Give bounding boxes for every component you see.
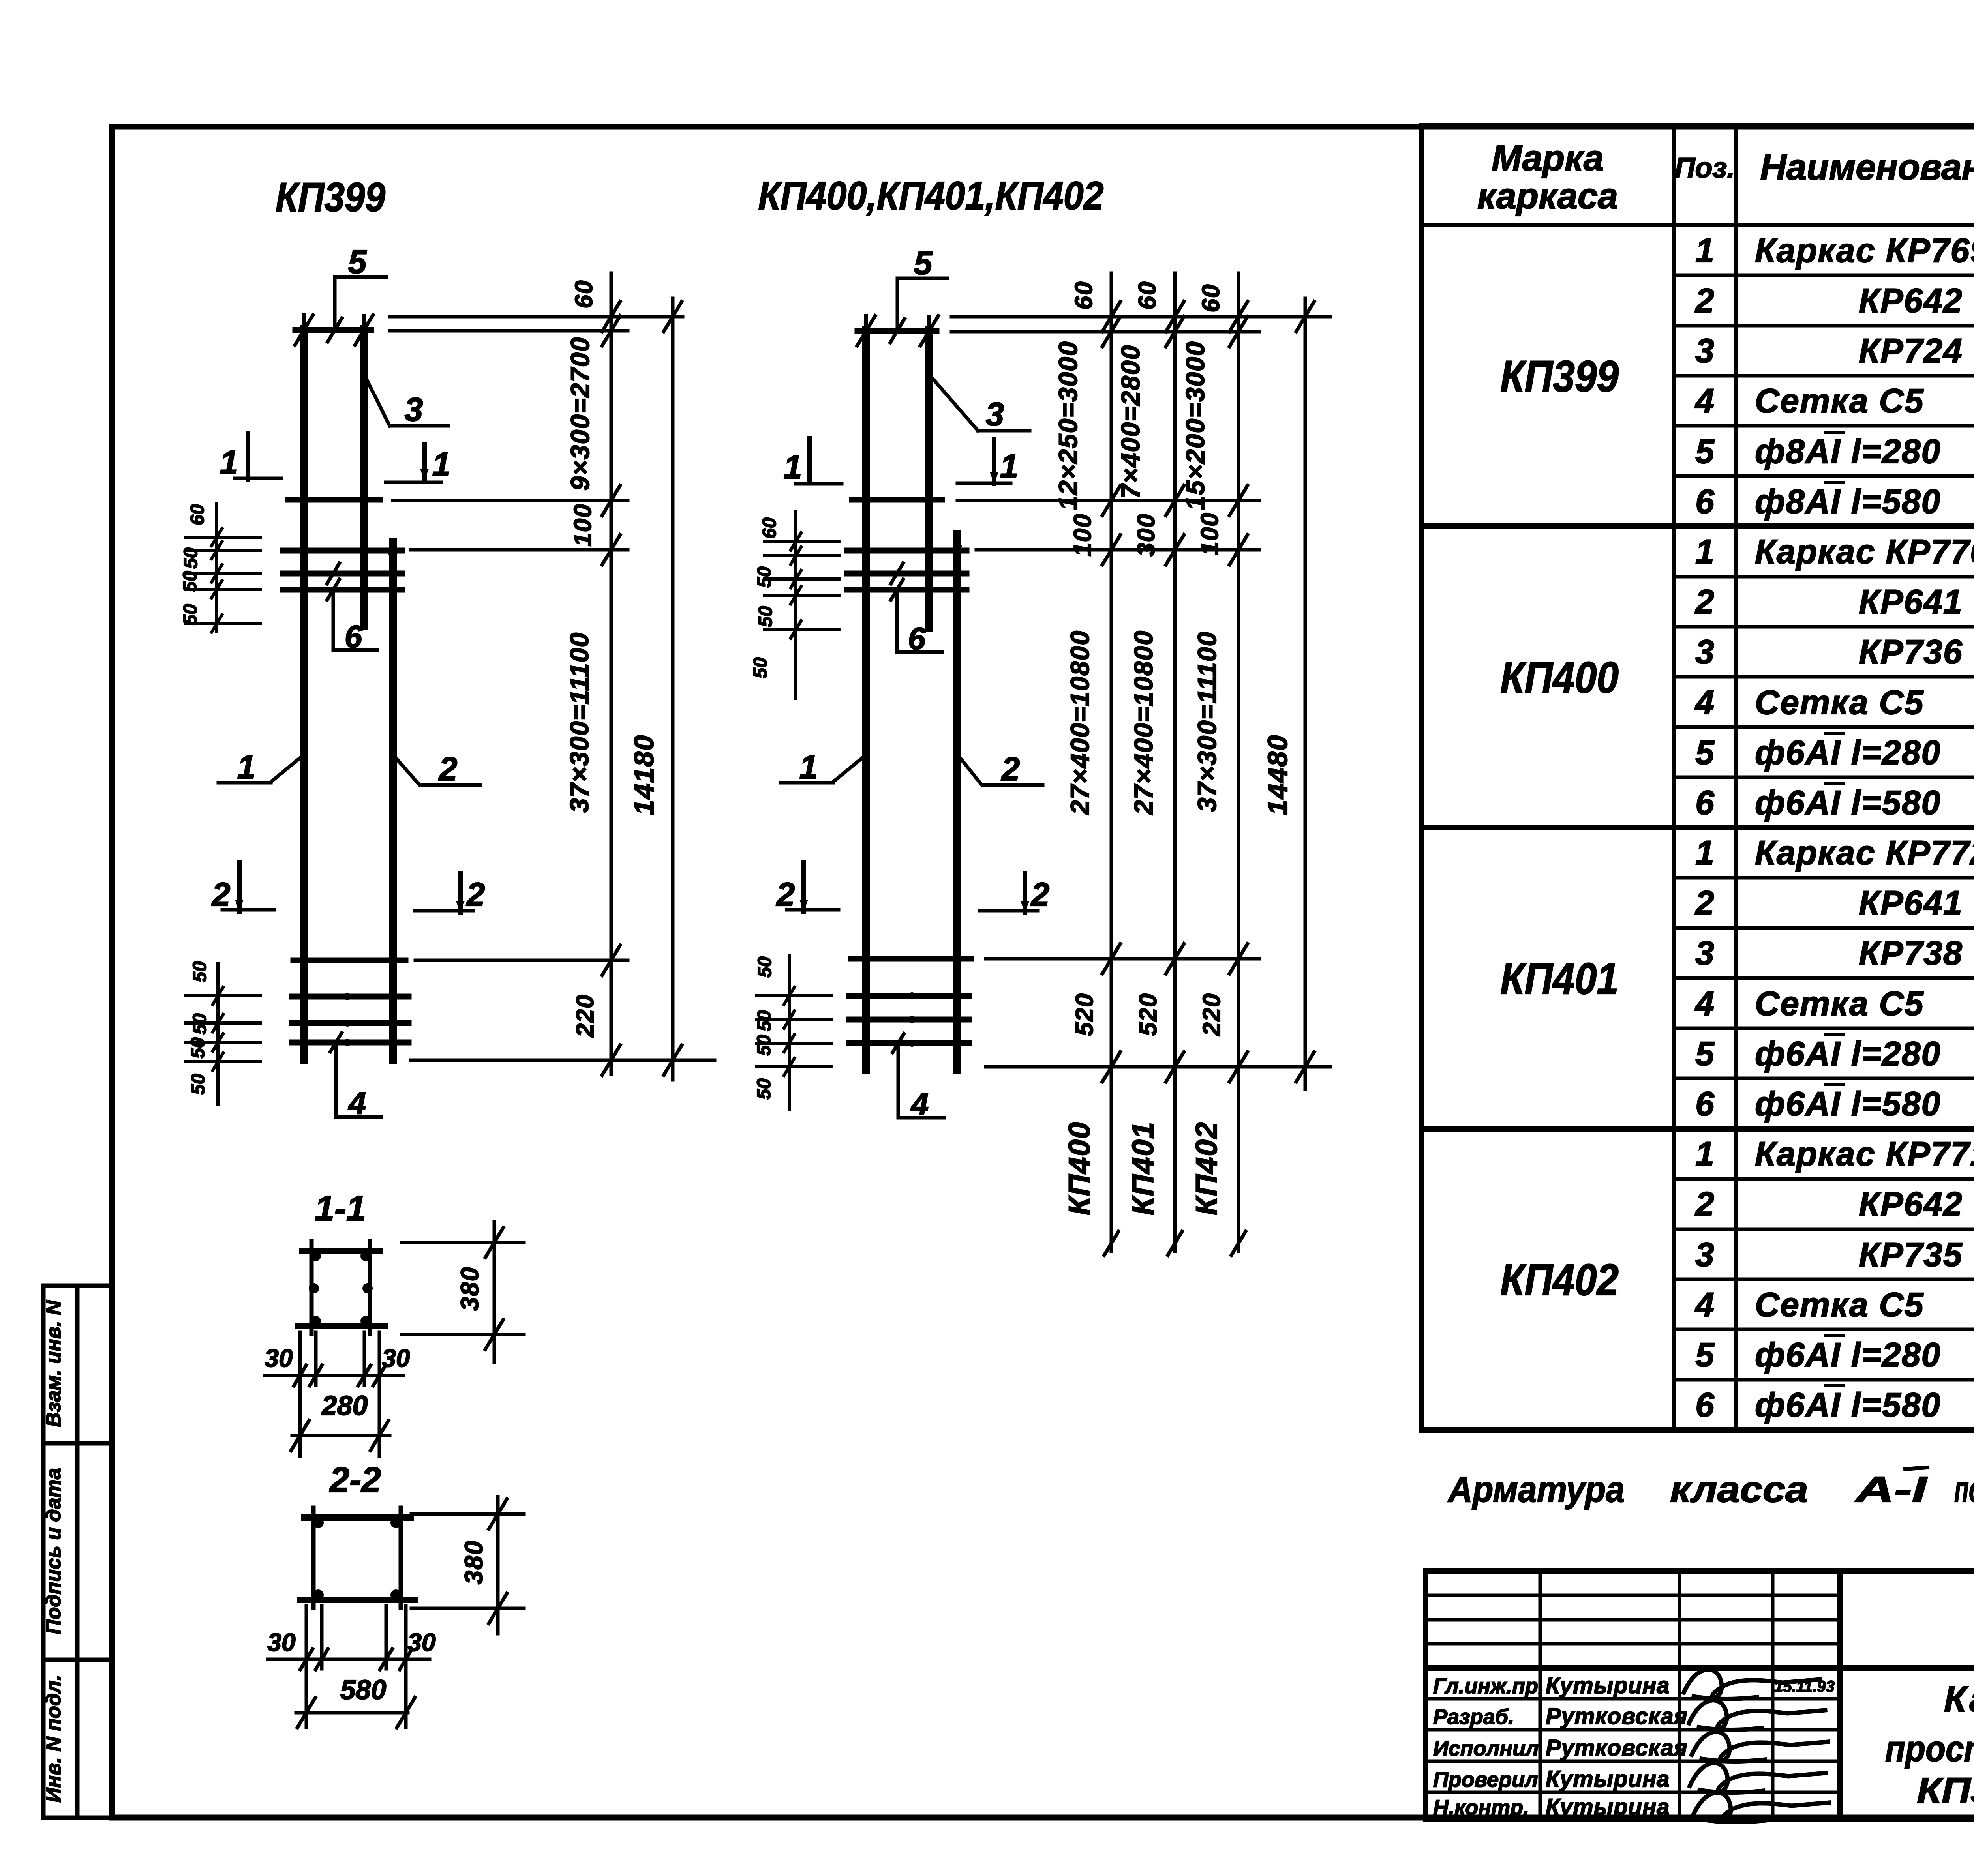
- svg-text:1: 1: [799, 748, 818, 785]
- svg-text:КР641: КР641: [1859, 583, 1963, 621]
- svg-text:220: 220: [572, 994, 599, 1037]
- svg-text:14180: 14180: [629, 735, 659, 815]
- splice cross line a: [283, 548, 402, 554]
- svg-text:5: 5: [1695, 1336, 1715, 1374]
- title block inner lines: [1426, 1571, 1974, 1819]
- dimension line 1 (КП399 partial dims): [610, 273, 613, 1074]
- svg-text:КП401: КП401: [1126, 1121, 1160, 1215]
- svg-text:КП399...КП402: КП399...КП402: [1917, 1771, 1974, 1811]
- svg-text:50: 50: [754, 1035, 775, 1056]
- bottom splice cross line a: [293, 958, 405, 963]
- d2 left mini dim stack (bottom): [788, 955, 791, 1109]
- left mini dim stack (bottom): [216, 964, 220, 1104]
- main bar item1 (left, full height): [300, 329, 308, 1060]
- svg-text:5: 5: [1695, 734, 1715, 772]
- svg-text:ф6АI l=580: ф6АI l=580: [1755, 784, 1941, 822]
- svg-text:ф6АI l=580: ф6АI l=580: [1755, 1386, 1941, 1424]
- svg-text:Сетка С5: Сетка С5: [1755, 382, 1924, 420]
- svg-text:КП402: КП402: [1190, 1121, 1223, 1215]
- svg-text:Каркас КР772: Каркас КР772: [1755, 834, 1974, 872]
- svg-text:100: 100: [569, 503, 597, 546]
- svg-text:15×200=3000: 15×200=3000: [1180, 341, 1210, 510]
- svg-text:Сетка С5: Сетка С5: [1755, 985, 1924, 1023]
- svg-text:2: 2: [1694, 884, 1714, 922]
- bar item2 (right lower): [389, 542, 397, 1060]
- label 2 leader: [985, 783, 1043, 787]
- section cut mark 1 right: [992, 439, 996, 484]
- svg-text:100: 100: [1069, 513, 1096, 556]
- section 1-1 stirrup rect: [298, 1241, 385, 1334]
- svg-text:КР736: КР736: [1859, 633, 1963, 671]
- svg-text:6: 6: [345, 619, 362, 654]
- section cut mark 2 left: [801, 863, 806, 911]
- svg-text:1: 1: [1695, 533, 1714, 571]
- svg-text:37×300=11100: 37×300=11100: [565, 632, 594, 813]
- svg-text:60: 60: [1197, 284, 1225, 313]
- svg-text:Наименование: Наименование: [1760, 147, 1974, 187]
- svg-text:1-1: 1-1: [315, 1189, 366, 1228]
- svg-text:5: 5: [348, 243, 367, 280]
- overbar on I of A-I: [1905, 1467, 1927, 1469]
- dim column 2 (КП401): [1173, 273, 1177, 1251]
- svg-text:КП400,КП401,КП402: КП400,КП401,КП402: [758, 174, 1104, 218]
- label 6 bracket: [895, 590, 899, 652]
- svg-text:60: 60: [1070, 281, 1098, 310]
- svg-text:50: 50: [188, 1037, 208, 1059]
- section cut mark 1-1 left: [246, 434, 250, 480]
- svg-text:2: 2: [1694, 282, 1714, 320]
- table row lines: [1674, 275, 1974, 1380]
- svg-text:Каркас КР771: Каркас КР771: [1755, 1135, 1974, 1173]
- svg-text:60: 60: [1134, 281, 1161, 310]
- svg-text:2-2: 2-2: [329, 1460, 381, 1500]
- svg-text:30: 30: [267, 1628, 295, 1657]
- section 1-1 dim 380: [402, 1222, 524, 1362]
- arrow top of item2 bar: [388, 542, 398, 555]
- overall dimension line (14480): [1304, 298, 1307, 1089]
- section cut mark 1-1 right: [422, 445, 427, 481]
- svg-text:класса: класса: [1670, 1469, 1808, 1510]
- svg-text:3: 3: [1695, 1236, 1714, 1274]
- svg-text:Н.контр.: Н.контр.: [1433, 1796, 1529, 1820]
- svg-text:Проверил: Проверил: [1433, 1768, 1538, 1792]
- svg-text:6: 6: [1695, 784, 1715, 822]
- svg-text:3: 3: [1695, 332, 1714, 370]
- svg-text:580: 580: [340, 1674, 387, 1705]
- svg-text:Каркас КР769: Каркас КР769: [1755, 232, 1974, 270]
- svg-text:300: 300: [1133, 513, 1160, 556]
- bottom splice cross line d: [292, 1040, 409, 1046]
- svg-text:520: 520: [1135, 993, 1162, 1036]
- svg-text:50: 50: [754, 1078, 775, 1100]
- svg-text:50: 50: [754, 1010, 775, 1031]
- svg-text:50: 50: [754, 566, 775, 588]
- svg-text:2: 2: [466, 876, 485, 913]
- svg-text:КП400: КП400: [1500, 653, 1619, 702]
- svg-text:100: 100: [1196, 512, 1223, 555]
- svg-text:Каркас: Каркас: [1944, 1679, 1974, 1719]
- svg-text:Каркас КР770: Каркас КР770: [1755, 533, 1974, 571]
- svg-text:380: 380: [460, 1540, 488, 1585]
- label 1 leader: [218, 781, 271, 785]
- svg-text:2: 2: [1001, 750, 1020, 787]
- svg-text:Поз.: Поз.: [1675, 152, 1735, 184]
- svg-text:37×300=11100: 37×300=11100: [1192, 631, 1222, 812]
- svg-text:30: 30: [407, 1628, 435, 1657]
- svg-text:6: 6: [1695, 1386, 1715, 1424]
- cross line bottom of upper segment: [288, 497, 380, 503]
- bar item3 (right upper): [925, 330, 933, 628]
- extension lines drawing1: [390, 317, 715, 1060]
- svg-text:Кутырина: Кутырина: [1546, 1673, 1670, 1698]
- svg-text:КР724: КР724: [1859, 332, 1963, 370]
- svg-text:ф8АI l=280: ф8АI l=280: [1755, 433, 1941, 470]
- svg-text:50: 50: [190, 1013, 210, 1035]
- svg-text:2: 2: [776, 876, 795, 913]
- overall dimension line (14180): [671, 298, 675, 1080]
- signature scribbles: [1684, 1670, 1829, 1822]
- section 2-2 stirrup rect: [300, 1508, 415, 1608]
- svg-text:5: 5: [1695, 1035, 1715, 1073]
- svg-text:КР641: КР641: [1859, 884, 1963, 922]
- svg-text:50: 50: [180, 571, 201, 592]
- svg-text:Взам. инв. N: Взам. инв. N: [42, 1300, 65, 1427]
- section cut mark 1 left: [807, 438, 812, 482]
- bar item3 (right upper): [360, 329, 368, 626]
- svg-text:1: 1: [1000, 448, 1019, 485]
- d2 bottom splice cross lines: [851, 956, 971, 962]
- table column lines: [1422, 126, 1974, 1430]
- svg-text:КП402: КП402: [1500, 1255, 1619, 1304]
- svg-text:пространственный: пространственный: [1885, 1729, 1974, 1769]
- svg-text:50: 50: [188, 1074, 209, 1095]
- svg-text:ф6АI l=280: ф6АI l=280: [1755, 1336, 1941, 1374]
- svg-text:КП399: КП399: [276, 174, 385, 220]
- label 4 bracket: [334, 1045, 338, 1117]
- svg-text:1: 1: [220, 444, 238, 481]
- svg-text:520: 520: [1071, 993, 1098, 1036]
- label 3 leader: [930, 376, 978, 431]
- section 2-2 dim 380: [411, 1497, 524, 1634]
- svg-text:Исполнил: Исполнил: [1433, 1737, 1539, 1760]
- svg-text:14480: 14480: [1262, 735, 1293, 815]
- svg-text:Рутковская: Рутковская: [1546, 1735, 1688, 1761]
- svg-text:7×400=2800: 7×400=2800: [1116, 345, 1145, 499]
- svg-text:50: 50: [190, 961, 210, 982]
- svg-text:ф6АI l=580: ф6АI l=580: [1755, 1085, 1941, 1123]
- svg-text:ф6АI l=280: ф6АI l=280: [1755, 734, 1941, 772]
- svg-text:1: 1: [1695, 834, 1714, 872]
- svg-text:Рутковская: Рутковская: [1546, 1704, 1688, 1729]
- bottom splice cross line c: [292, 1020, 409, 1026]
- svg-text:50: 50: [750, 657, 771, 678]
- svg-text:КП401: КП401: [1500, 954, 1619, 1003]
- label 1 leader: [781, 781, 833, 785]
- svg-text:2: 2: [1694, 1185, 1714, 1223]
- svg-text:3: 3: [1695, 633, 1714, 671]
- svg-text:2: 2: [1694, 583, 1714, 621]
- svg-text:КР642: КР642: [1859, 282, 1963, 320]
- svg-text:Кутырина: Кутырина: [1546, 1794, 1670, 1820]
- svg-text:каркаса: каркаса: [1477, 176, 1618, 216]
- svg-text:60: 60: [570, 280, 598, 309]
- top cross bar: [858, 328, 936, 334]
- bottom joint dots: [300, 956, 308, 965]
- parts table outer border: [1422, 126, 1974, 1430]
- svg-text:60: 60: [759, 517, 780, 539]
- svg-text:3: 3: [986, 395, 1004, 433]
- svg-text:КП399: КП399: [1500, 352, 1619, 401]
- svg-text:2: 2: [211, 876, 231, 913]
- svg-text:4: 4: [348, 1085, 366, 1121]
- top cross bar: [295, 327, 371, 333]
- bottom splice cross line b: [292, 994, 409, 1000]
- section 1-1 rebar dots: [311, 1251, 321, 1261]
- d2 extension lines: [951, 317, 1330, 1067]
- svg-text:2: 2: [438, 750, 458, 787]
- label 3 leader: [365, 376, 390, 426]
- svg-text:КП400: КП400: [1063, 1121, 1096, 1215]
- svg-text:3: 3: [1695, 934, 1714, 972]
- section 1-1 bottom dims: [265, 1332, 403, 1456]
- svg-text:4: 4: [1694, 382, 1714, 420]
- svg-text:Арматура: Арматура: [1447, 1469, 1625, 1510]
- svg-text:1: 1: [432, 446, 451, 483]
- svg-text:1: 1: [1695, 232, 1714, 270]
- svg-text:5: 5: [1695, 433, 1715, 470]
- splice cross line c: [283, 587, 402, 593]
- svg-text:4: 4: [1694, 1286, 1714, 1324]
- svg-text:380: 380: [456, 1267, 484, 1311]
- svg-text:9×300=2700: 9×300=2700: [565, 337, 595, 491]
- svg-text:50: 50: [180, 547, 201, 569]
- svg-text:А-I: А-I: [1854, 1469, 1928, 1510]
- svg-text:1: 1: [784, 448, 802, 485]
- splice joint dots: [300, 546, 308, 555]
- table group separator lines: [1422, 526, 1974, 1129]
- svg-text:4: 4: [1694, 684, 1714, 722]
- label 5 bracket: [333, 277, 337, 331]
- svg-text:6: 6: [908, 621, 926, 656]
- svg-text:Подпись и дата: Подпись и дата: [42, 1468, 65, 1634]
- svg-text:Сетка С5: Сетка С5: [1755, 684, 1924, 722]
- svg-text:50: 50: [180, 604, 201, 625]
- svg-text:1: 1: [1695, 1135, 1714, 1173]
- section cut mark 2-2 left: [237, 863, 242, 911]
- svg-text:Кутырина: Кутырина: [1546, 1766, 1670, 1792]
- dim column 3 (КП402): [1237, 273, 1240, 1251]
- svg-text:27×400=10800: 27×400=10800: [1129, 630, 1158, 815]
- svg-text:6: 6: [1695, 483, 1715, 521]
- left mini dim stack (upper splice): [215, 504, 218, 631]
- svg-text:Разраб.: Разраб.: [1433, 1705, 1514, 1729]
- label 2 leader: [423, 783, 480, 787]
- svg-text:1: 1: [237, 748, 256, 785]
- svg-text:по ГОСТ 5781-82: по ГОСТ 5781-82: [1954, 1469, 1974, 1510]
- main bar item1 (left): [862, 330, 870, 1070]
- svg-text:Инв. N подл.: Инв. N подл.: [42, 1675, 65, 1803]
- svg-text:ф8АI l=580: ф8АI l=580: [1755, 483, 1941, 521]
- svg-text:Сетка С5: Сетка С5: [1755, 1286, 1924, 1324]
- svg-text:КР738: КР738: [1859, 934, 1963, 972]
- dim column 1 (КП400): [1110, 273, 1113, 1251]
- svg-text:60: 60: [187, 504, 208, 525]
- svg-text:5: 5: [914, 244, 933, 281]
- label 5 bracket: [896, 278, 899, 332]
- bar item2 (right lower): [953, 534, 961, 1070]
- d2 label 4 bracket: [897, 1046, 900, 1118]
- section 2-2 rebar dots: [313, 1517, 324, 1528]
- splice cross line b: [283, 571, 402, 577]
- section cut mark 2-2 right: [458, 873, 463, 913]
- svg-text:220: 220: [1198, 993, 1225, 1036]
- svg-text:12×250=3000: 12×250=3000: [1053, 341, 1083, 510]
- svg-text:280: 280: [321, 1390, 368, 1421]
- svg-text:2: 2: [1030, 876, 1050, 913]
- splice cross lines: [847, 548, 966, 554]
- svg-text:4: 4: [910, 1086, 929, 1121]
- svg-text:4: 4: [1694, 985, 1714, 1023]
- svg-text:3: 3: [405, 391, 423, 428]
- svg-text:27×400=10800: 27×400=10800: [1065, 630, 1094, 815]
- svg-text:30: 30: [265, 1344, 293, 1372]
- label 6 bracket: [332, 590, 335, 650]
- svg-text:30: 30: [382, 1344, 410, 1372]
- svg-text:КР735: КР735: [1859, 1236, 1963, 1274]
- title block outer border: [1426, 1571, 1974, 1819]
- svg-text:50: 50: [755, 606, 776, 627]
- svg-text:6: 6: [1695, 1085, 1715, 1123]
- svg-text:50: 50: [754, 956, 775, 978]
- section 2-2 bottom dims: [268, 1606, 430, 1727]
- svg-text:КР642: КР642: [1859, 1185, 1963, 1223]
- left attachment strip box: [43, 1286, 112, 1818]
- svg-text:ф6АI l=280: ф6АI l=280: [1755, 1035, 1941, 1073]
- section cut mark 2 right: [1023, 873, 1027, 913]
- cross line bottom of upper segment: [852, 497, 942, 503]
- svg-text:Гл.инж.пр.: Гл.инж.пр.: [1433, 1674, 1544, 1698]
- d2 left mini dim stack (upper splice): [794, 512, 797, 699]
- svg-text:Марка: Марка: [1492, 138, 1604, 178]
